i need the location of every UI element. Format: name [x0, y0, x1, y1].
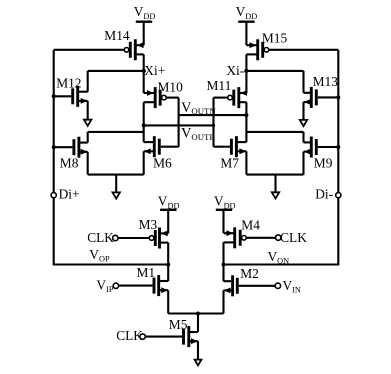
svg-text:M10: M10 [158, 79, 184, 94]
svg-text:M13: M13 [313, 74, 339, 89]
svg-text:M4: M4 [241, 218, 260, 233]
svg-text:M2: M2 [240, 266, 259, 281]
svg-text:M6: M6 [153, 155, 172, 170]
svg-text:CLK: CLK [87, 230, 114, 245]
svg-text:M11: M11 [207, 78, 232, 93]
svg-text:Di-: Di- [315, 187, 333, 202]
svg-text:Xi+: Xi+ [144, 63, 165, 78]
svg-text:M15: M15 [262, 31, 288, 46]
svg-text:CLK: CLK [116, 328, 143, 343]
svg-text:M12: M12 [56, 75, 81, 90]
svg-text:M3: M3 [139, 217, 158, 232]
svg-text:M8: M8 [60, 156, 79, 171]
svg-text:M14: M14 [104, 28, 130, 43]
svg-text:M1: M1 [137, 265, 156, 280]
svg-text:Xi-: Xi- [226, 63, 244, 78]
svg-text:CLK: CLK [280, 230, 307, 245]
svg-text:Di+: Di+ [59, 187, 80, 202]
svg-text:M5: M5 [169, 317, 188, 332]
svg-text:M7: M7 [220, 156, 239, 171]
svg-text:M9: M9 [314, 156, 333, 171]
